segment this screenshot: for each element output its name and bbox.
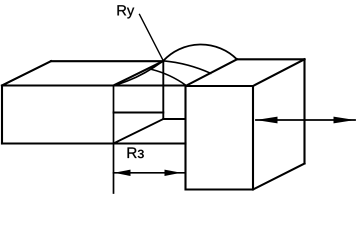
asperity base ellipse back arc right half xyxy=(163,61,210,74)
sliding arrow left arrowhead xyxy=(256,117,278,124)
upper block top back edge xyxy=(237,58,305,60)
Ry leader line xyxy=(140,14,164,60)
groove back vertical edge xyxy=(162,61,164,119)
Rz dimension right arrowhead xyxy=(165,170,182,176)
upper block top-right receding edge xyxy=(253,59,305,86)
lower block top front edge xyxy=(2,84,186,86)
upper block top-left receding edge xyxy=(186,59,238,86)
upper block bottom receding edge xyxy=(253,164,305,190)
label Ry xyxy=(118,5,127,15)
lower block front face left edge xyxy=(1,86,3,144)
groove bottom diagonal edge xyxy=(114,119,164,144)
lower block step receding edge xyxy=(114,61,164,86)
lower block top-left receding edge xyxy=(2,61,51,85)
lower block bottom edge xyxy=(2,142,186,144)
dimension extension line xyxy=(113,86,115,194)
sliding direction arrow shaft xyxy=(256,119,355,121)
Rz dimension line xyxy=(114,172,186,174)
groove rim front arc xyxy=(152,69,187,85)
sliding arrow right arrowhead xyxy=(334,117,356,124)
groove floor right front edge xyxy=(163,118,185,120)
groove floor front edge xyxy=(114,112,164,114)
asperity dome outline arc xyxy=(163,44,237,60)
label R3 (Rz) xyxy=(128,147,137,158)
upper block back right edge xyxy=(303,59,305,163)
Rz dimension left arrowhead xyxy=(114,170,131,176)
upper block front face xyxy=(186,86,254,190)
asperity base ellipse back arc left half xyxy=(114,61,164,86)
lower block top back edge xyxy=(51,60,163,62)
